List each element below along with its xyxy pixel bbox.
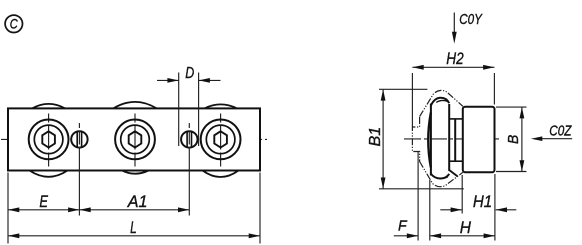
roller bottom arc [431,174,449,179]
svg-text:F: F [398,219,408,235]
screw collar left edge [454,119,456,161]
dimension B extension lines [496,107,527,171]
roller top bump 1 [32,104,65,109]
dimension L line [8,233,260,238]
dimension B1 line [381,89,386,189]
roller right edge [448,104,450,171]
extension line at pin 1 [78,150,80,216]
pin 1 vertical centerline [78,123,80,150]
roller top bump 3 [205,104,238,108]
pin 2 vertical centerline [188,123,190,150]
dimension H1 line with outside arrows [440,207,516,212]
svg-text:L: L [130,219,137,237]
hex socket unit 3 [214,131,227,147]
centre of gravity C0Z arrow [531,136,572,141]
dimension E line [8,207,79,212]
screw collar bottom edge [449,160,463,162]
washer outer circle unit 1 [29,119,69,159]
extension line at bar right end [259,173,261,244]
dimension F line with outside arrow [394,233,418,238]
svg-text:C0Z: C0Z [549,124,572,140]
pin 1 circle [71,131,87,147]
extension line at housing inset face [417,152,419,241]
screw head circle unit 1 [34,125,63,154]
roller top chamfer arc [436,100,448,102]
dimension A1 line [79,207,189,212]
extension line at head right face [494,174,496,241]
svg-text:C: C [10,17,18,32]
extension line at roller face [429,180,431,241]
roller side silhouette left edge [430,104,432,176]
roller top arc [431,98,449,106]
roller bottom chamfer arc [434,177,447,179]
pin 1 chord lines [77,132,81,147]
svg-text:A1: A1 [127,193,148,211]
horizontal centerline (front view) [1,138,267,140]
bar body (front view rectangle) [8,108,260,170]
dimension B line [520,107,525,171]
dimension H1 extension line [461,175,463,214]
screw unit 2 vertical centerline [134,114,136,167]
screw collar top edge [449,118,463,120]
screw head circle unit 3 [206,125,235,154]
dimension B1 extension lines [379,89,464,189]
dimension H2 extension lines [412,73,494,127]
side view centerline [404,138,502,140]
screw head circle unit 2 [121,125,150,154]
roller bottom bump 3 [203,171,239,178]
dimension H2 line [412,65,494,70]
washer outer circle unit 2 [115,119,155,159]
roller bottom-right chamfer edge [449,170,458,177]
svg-text:B1: B1 [367,127,384,147]
screw head cylinder [463,107,495,172]
extension line at bar left end [7,173,9,244]
svg-text:H2: H2 [446,50,463,68]
roller crown arc [428,113,431,168]
svg-text:D: D [185,65,194,82]
centre of gravity C0Y arrow [452,13,457,44]
dimension H line [430,233,495,238]
roller bottom bump 1 [30,171,68,177]
pin 2 chord lines [187,132,191,147]
hex socket unit 1 [42,131,55,147]
svg-text:H: H [460,219,471,237]
svg-text:E: E [39,193,48,211]
view label C (circled letter) [5,15,22,32]
hex socket unit 2 [129,131,142,147]
svg-text:B: B [505,135,522,144]
svg-text:H1: H1 [473,193,492,211]
roller bottom bump 2 [122,171,149,174]
side view housing phantom outline [412,90,463,186]
screw unit 1 vertical centerline [48,114,50,167]
washer outer circle unit 3 [201,119,241,159]
screw unit 3 vertical centerline [220,114,222,167]
dimension D extension lines [179,73,199,147]
extension line at pin 2 [188,150,190,216]
roller top bump 2 [113,102,156,109]
dimension D line with outside arrows [157,78,221,83]
pin 2 circle [181,131,197,147]
svg-text:C0Y: C0Y [459,12,483,28]
